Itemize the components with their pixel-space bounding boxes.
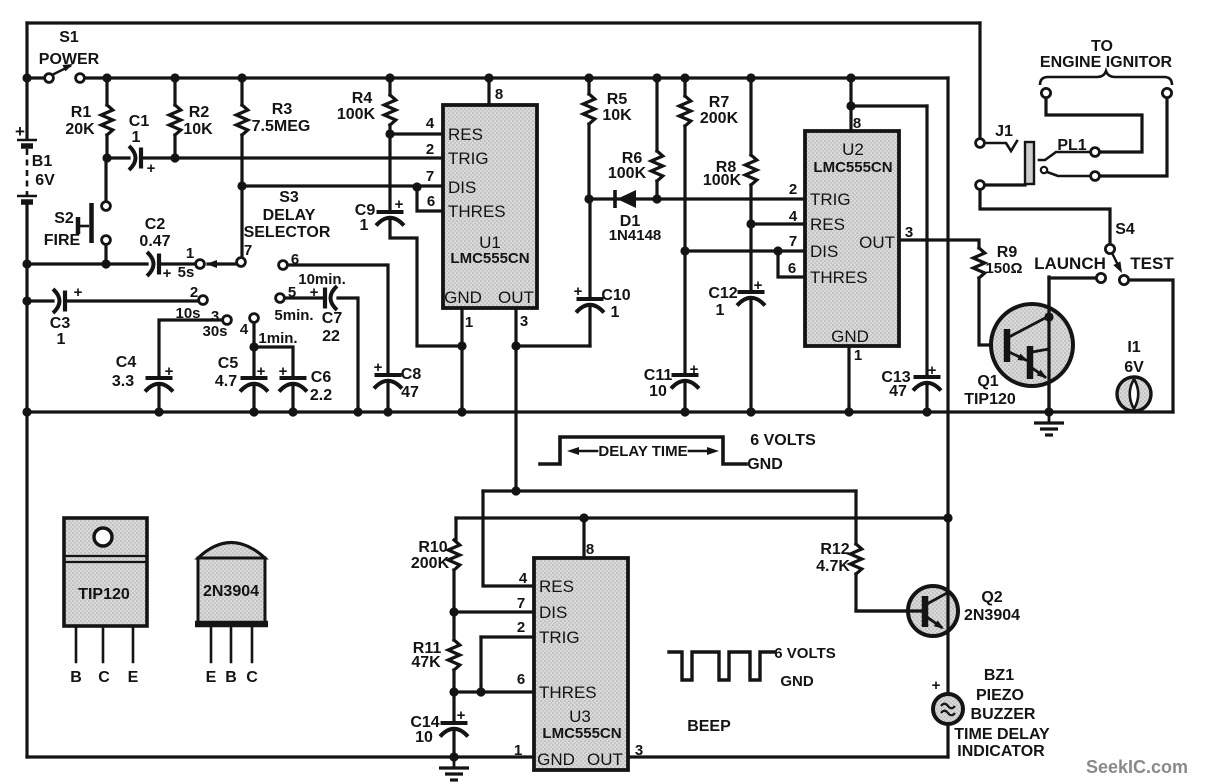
svg-text:+: + xyxy=(163,265,172,282)
svg-text:C11: C11 xyxy=(644,367,673,384)
svg-text:1: 1 xyxy=(186,245,194,262)
svg-text:C: C xyxy=(246,669,258,686)
svg-text:6: 6 xyxy=(427,193,435,210)
svg-text:6V: 6V xyxy=(1124,359,1144,376)
svg-text:GND: GND xyxy=(831,327,869,346)
svg-text:R3: R3 xyxy=(272,101,293,118)
svg-text:R5: R5 xyxy=(607,91,628,108)
svg-text:+: + xyxy=(74,284,83,301)
svg-text:7.5MEG: 7.5MEG xyxy=(252,118,311,135)
svg-text:TO: TO xyxy=(1091,38,1113,55)
svg-text:U3: U3 xyxy=(569,707,591,726)
svg-text:+: + xyxy=(165,363,174,380)
svg-text:TIME DELAY: TIME DELAY xyxy=(954,726,1050,743)
svg-text:22: 22 xyxy=(322,328,340,345)
svg-text:+: + xyxy=(395,196,404,213)
svg-text:7: 7 xyxy=(244,242,252,259)
svg-text:7: 7 xyxy=(789,233,797,250)
svg-text:20K: 20K xyxy=(65,121,95,138)
svg-text:+: + xyxy=(754,277,763,294)
svg-text:+: + xyxy=(310,284,319,301)
svg-text:S2: S2 xyxy=(54,210,74,227)
svg-text:INDICATOR: INDICATOR xyxy=(957,743,1045,760)
svg-text:3: 3 xyxy=(905,224,913,241)
svg-text:R12: R12 xyxy=(820,541,849,558)
svg-text:47: 47 xyxy=(889,383,907,400)
svg-text:0.47: 0.47 xyxy=(139,233,170,250)
svg-text:2.2: 2.2 xyxy=(310,387,332,404)
svg-text:10K: 10K xyxy=(602,107,632,124)
svg-text:+: + xyxy=(374,359,383,376)
svg-text:PIEZO: PIEZO xyxy=(976,687,1024,704)
svg-text:S4: S4 xyxy=(1115,221,1135,238)
svg-text:1: 1 xyxy=(514,742,522,759)
svg-text:7: 7 xyxy=(426,168,434,185)
svg-text:+: + xyxy=(15,122,25,141)
svg-text:LMC555CN: LMC555CN xyxy=(813,159,892,176)
svg-text:200K: 200K xyxy=(700,110,739,127)
svg-text:LAUNCH: LAUNCH xyxy=(1034,254,1106,273)
svg-text:30s: 30s xyxy=(202,323,227,340)
svg-text:GND: GND xyxy=(537,750,575,769)
svg-text:R1: R1 xyxy=(71,104,92,121)
svg-text:DELAY: DELAY xyxy=(263,207,316,224)
svg-text:GND: GND xyxy=(747,456,783,473)
svg-text:47: 47 xyxy=(401,384,419,401)
svg-text:C1: C1 xyxy=(129,113,150,130)
svg-text:4.7K: 4.7K xyxy=(816,558,850,575)
svg-text:10min.: 10min. xyxy=(298,271,346,288)
svg-text:Q2: Q2 xyxy=(981,589,1002,606)
svg-text:TRIG: TRIG xyxy=(539,628,580,647)
svg-text:C12: C12 xyxy=(708,285,737,302)
svg-text:1min.: 1min. xyxy=(258,330,297,347)
svg-text:8: 8 xyxy=(586,541,594,558)
svg-text:2: 2 xyxy=(426,141,434,158)
svg-text:1: 1 xyxy=(57,331,66,348)
svg-text:+: + xyxy=(257,363,266,380)
svg-text:1: 1 xyxy=(611,304,620,321)
svg-text:3: 3 xyxy=(520,313,528,330)
svg-text:BEEP: BEEP xyxy=(687,718,731,735)
svg-text:OUT: OUT xyxy=(498,288,534,307)
svg-text:E: E xyxy=(128,669,139,686)
svg-text:1: 1 xyxy=(716,302,725,319)
svg-text:4: 4 xyxy=(789,208,798,225)
svg-text:GND: GND xyxy=(444,288,482,307)
svg-text:10K: 10K xyxy=(183,121,213,138)
svg-text:+: + xyxy=(690,361,699,378)
svg-text:RES: RES xyxy=(448,125,483,144)
svg-text:C: C xyxy=(98,669,110,686)
svg-text:1N4148: 1N4148 xyxy=(609,227,662,244)
svg-text:RES: RES xyxy=(539,577,574,596)
svg-text:SeekIC.com: SeekIC.com xyxy=(1086,757,1188,777)
svg-text:THRES: THRES xyxy=(810,268,868,287)
svg-text:6 VOLTS: 6 VOLTS xyxy=(750,432,816,449)
svg-text:+: + xyxy=(928,362,937,379)
svg-text:2: 2 xyxy=(517,619,525,636)
svg-text:C4: C4 xyxy=(116,354,137,371)
svg-text:E: E xyxy=(206,669,217,686)
svg-text:B: B xyxy=(225,669,237,686)
svg-text:S3: S3 xyxy=(279,189,299,206)
svg-text:2N3904: 2N3904 xyxy=(964,607,1020,624)
svg-text:100K: 100K xyxy=(337,106,376,123)
svg-text:+: + xyxy=(147,160,156,177)
svg-text:GND: GND xyxy=(780,673,814,690)
svg-text:C8: C8 xyxy=(401,366,422,383)
svg-text:5min.: 5min. xyxy=(274,307,313,324)
svg-text:7: 7 xyxy=(517,595,525,612)
svg-text:B: B xyxy=(70,669,82,686)
svg-text:2N3904: 2N3904 xyxy=(203,583,259,600)
svg-text:47K: 47K xyxy=(411,654,441,671)
svg-text:I1: I1 xyxy=(1127,339,1140,356)
svg-text:PL1: PL1 xyxy=(1057,137,1086,154)
svg-text:OUT: OUT xyxy=(587,750,623,769)
svg-text:R2: R2 xyxy=(189,104,210,121)
svg-text:3.3: 3.3 xyxy=(112,373,134,390)
svg-text:5: 5 xyxy=(288,284,296,301)
svg-text:THRES: THRES xyxy=(539,683,597,702)
svg-text:+: + xyxy=(279,363,288,380)
svg-text:C3: C3 xyxy=(50,315,71,332)
svg-text:POWER: POWER xyxy=(39,51,100,68)
svg-text:4: 4 xyxy=(519,570,528,587)
svg-text:4: 4 xyxy=(426,115,435,132)
svg-text:TRIG: TRIG xyxy=(810,190,851,209)
svg-text:C10: C10 xyxy=(601,287,630,304)
svg-text:100K: 100K xyxy=(703,172,742,189)
svg-text:3: 3 xyxy=(635,742,643,759)
svg-text:TIP120: TIP120 xyxy=(964,391,1016,408)
svg-text:LMC555CN: LMC555CN xyxy=(542,725,621,742)
svg-text:DIS: DIS xyxy=(539,603,567,622)
svg-text:C5: C5 xyxy=(218,355,239,372)
svg-text:6 VOLTS: 6 VOLTS xyxy=(774,645,835,662)
svg-text:200K: 200K xyxy=(411,555,450,572)
svg-text:1: 1 xyxy=(854,347,862,364)
svg-text:8: 8 xyxy=(853,115,861,132)
svg-text:OUT: OUT xyxy=(859,233,895,252)
svg-text:10s: 10s xyxy=(175,305,200,322)
svg-text:TIP120: TIP120 xyxy=(78,586,130,603)
svg-text:C7: C7 xyxy=(322,310,343,327)
svg-text:8: 8 xyxy=(495,86,503,103)
svg-text:B1: B1 xyxy=(32,153,53,170)
svg-text:5s: 5s xyxy=(178,264,195,281)
svg-text:FIRE: FIRE xyxy=(44,232,81,249)
svg-text:THRES: THRES xyxy=(448,202,506,221)
svg-text:R9: R9 xyxy=(997,244,1018,261)
svg-text:150Ω: 150Ω xyxy=(985,260,1022,277)
svg-text:C6: C6 xyxy=(311,369,332,386)
svg-text:TEST: TEST xyxy=(1130,254,1174,273)
svg-text:LMC555CN: LMC555CN xyxy=(450,250,529,267)
svg-text:6: 6 xyxy=(291,251,299,268)
svg-text:1: 1 xyxy=(465,314,473,331)
svg-text:2: 2 xyxy=(190,284,198,301)
svg-text:6V: 6V xyxy=(35,172,55,189)
svg-text:2: 2 xyxy=(789,181,797,198)
svg-text:1: 1 xyxy=(360,217,369,234)
svg-text:BZ1: BZ1 xyxy=(984,667,1014,684)
svg-text:ENGINE IGNITOR: ENGINE IGNITOR xyxy=(1040,54,1173,71)
svg-text:R10: R10 xyxy=(418,539,447,556)
svg-text:R4: R4 xyxy=(352,90,373,107)
svg-text:+: + xyxy=(574,283,583,300)
svg-text:+: + xyxy=(932,677,941,694)
svg-text:+: + xyxy=(457,707,466,724)
svg-text:TRIG: TRIG xyxy=(448,149,489,168)
svg-text:6: 6 xyxy=(788,260,796,277)
svg-text:100K: 100K xyxy=(608,165,647,182)
svg-text:BUZZER: BUZZER xyxy=(971,706,1036,723)
svg-text:SELECTOR: SELECTOR xyxy=(244,224,331,241)
svg-text:J1: J1 xyxy=(995,123,1013,140)
svg-text:4: 4 xyxy=(240,321,249,338)
svg-text:1: 1 xyxy=(132,129,141,146)
svg-text:Q1: Q1 xyxy=(977,373,998,390)
svg-text:DIS: DIS xyxy=(810,242,838,261)
svg-text:DELAY TIME: DELAY TIME xyxy=(598,443,687,460)
svg-text:U2: U2 xyxy=(842,140,864,159)
svg-text:S1: S1 xyxy=(59,29,79,46)
svg-text:6: 6 xyxy=(517,671,525,688)
svg-text:4.7: 4.7 xyxy=(215,373,237,390)
svg-text:R7: R7 xyxy=(709,94,730,111)
svg-text:10: 10 xyxy=(415,729,433,746)
svg-text:C2: C2 xyxy=(145,216,166,233)
svg-text:RES: RES xyxy=(810,215,845,234)
svg-text:DIS: DIS xyxy=(448,178,476,197)
svg-text:10: 10 xyxy=(649,383,667,400)
